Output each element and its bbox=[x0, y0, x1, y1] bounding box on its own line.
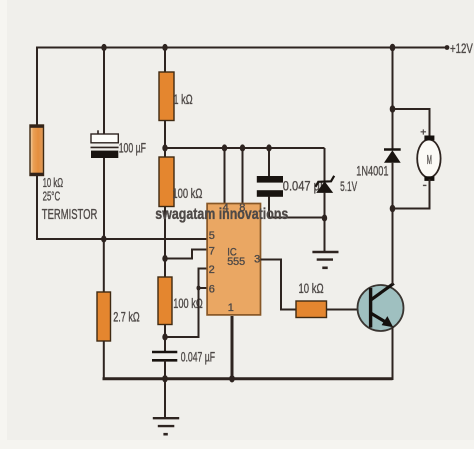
wire: pin 5 horizontal bbox=[36, 238, 207, 240]
svg-text:10 kΩ: 10 kΩ bbox=[299, 280, 324, 296]
wire: pin 6 stub bbox=[199, 287, 207, 289]
wire: C2 top lead bbox=[268, 148, 270, 177]
node junction R3 / C3 / pins 2,6 bbox=[162, 333, 167, 340]
svg-text:M: M bbox=[427, 152, 432, 167]
diode D1 1N4001 bbox=[384, 150, 401, 163]
node junction at 2.7k / 100uF bbox=[101, 235, 106, 242]
node junction ground rail / C3 bbox=[162, 375, 168, 382]
ground symbol (bottom) bbox=[153, 418, 179, 434]
svg-text:-: - bbox=[423, 177, 427, 192]
node junction D1 / motor top bbox=[390, 105, 396, 112]
capacitor C3 0.047uF bbox=[152, 352, 177, 360]
wire: pin 8 vertical bbox=[242, 148, 244, 204]
ground symbol (zener) bbox=[312, 252, 338, 268]
svg-text:0.047 µF: 0.047 µF bbox=[181, 348, 215, 364]
wire: R5 to base bbox=[327, 309, 359, 311]
wire: C2 to zener node bbox=[269, 217, 325, 219]
wire: bottom ground rail bbox=[103, 377, 393, 380]
wire: R2 top lead bbox=[164, 148, 166, 157]
wire: R1 bottom lead bbox=[164, 121, 166, 150]
wire: C2 bottom lead bbox=[268, 197, 270, 219]
wire: 100uF bottom lead bbox=[103, 158, 105, 239]
wire: zener top lead bbox=[324, 148, 326, 181]
node junction pin7 / R2-R3 bbox=[162, 255, 167, 262]
wire: 100uF top lead bbox=[103, 48, 105, 135]
wire: pin 4 vertical bbox=[224, 148, 226, 204]
wire: collector up bbox=[392, 209, 394, 285]
wire: pin 7 jog bbox=[165, 250, 207, 259]
zener diode D2 5.1V bbox=[316, 176, 335, 193]
bottom light band bbox=[0, 440, 474, 449]
transistor Q1 bbox=[358, 283, 404, 331]
svg-text:1: 1 bbox=[228, 302, 234, 314]
resistor R1 1 kΩ bbox=[159, 72, 174, 121]
wire: pin 2 jog bbox=[199, 269, 207, 289]
left light band bbox=[0, 0, 7, 449]
wire: junction to D1 cathode bbox=[392, 109, 394, 150]
node: +12V terminal dot bbox=[445, 45, 450, 50]
motor M1 bbox=[417, 136, 440, 181]
wire: zener bottom lead bbox=[324, 193, 326, 253]
svg-text:+: + bbox=[420, 126, 426, 138]
node junction mid rail / C2 bbox=[266, 144, 271, 151]
node junction pins 2,6 bbox=[197, 285, 201, 290]
node junction D1 / motor bottom bbox=[390, 205, 396, 212]
wire: +12V top rail bbox=[37, 47, 447, 49]
wire: R3 bottom lead bbox=[164, 325, 166, 353]
node junction mid rail / pin8 bbox=[240, 144, 245, 151]
node junction top rail / 100uF bbox=[101, 44, 106, 51]
svg-text:100 µF: 100 µF bbox=[119, 140, 146, 156]
wire: top rail to thermistor bbox=[36, 47, 38, 126]
wire: R1 top lead bbox=[164, 48, 166, 73]
wire: pins 2,6 down to R3/C3 node bbox=[165, 288, 199, 337]
svg-text:25°C: 25°C bbox=[43, 188, 61, 203]
svg-text:2.7 kΩ: 2.7 kΩ bbox=[113, 309, 140, 325]
node junction top rail / D1 branch bbox=[390, 44, 396, 51]
node junction ground rail / pin1 bbox=[229, 375, 235, 382]
wire: emitter down bbox=[392, 326, 394, 380]
svg-text:2: 2 bbox=[209, 264, 215, 276]
resistor R2 100 kΩ (upper) bbox=[159, 157, 174, 207]
svg-text:7: 7 bbox=[209, 246, 215, 258]
resistor R4 2.7 kΩ bbox=[97, 292, 111, 341]
wire: mid rail to pins 4,8 and zener bbox=[165, 147, 325, 149]
svg-text:6: 6 bbox=[209, 283, 215, 295]
wire: R2 to R3 bbox=[164, 207, 166, 278]
node junction mid rail / R1-R2 bbox=[162, 144, 167, 151]
wire: junction down to R4 2.7k bbox=[103, 239, 105, 292]
wire: thermistor bottom lead bbox=[36, 176, 38, 241]
capacitor C2 0.047uF bbox=[257, 176, 283, 197]
resistor R5 10 kΩ bbox=[296, 301, 327, 318]
wire: motor top branch bbox=[393, 109, 430, 137]
wire: R4 to ground rail bbox=[103, 341, 105, 380]
svg-text:5.1V: 5.1V bbox=[340, 178, 357, 194]
node junction top rail / R1 bbox=[162, 44, 167, 51]
wire: C3 bottom lead bbox=[164, 360, 166, 379]
wire: motor bottom branch bbox=[393, 179, 430, 209]
wire: top rail down to D1 bbox=[392, 48, 394, 110]
node junction mid rail / pin4 bbox=[222, 144, 227, 151]
svg-text:+12V: +12V bbox=[450, 40, 473, 56]
wire: pin 3 to R5 bbox=[261, 260, 297, 310]
capacitor C1 100uF polarity tick bbox=[97, 130, 99, 134]
svg-text:100 kΩ: 100 kΩ bbox=[172, 185, 202, 201]
wire: pin 1 to ground rail bbox=[231, 316, 234, 379]
svg-text:1 kΩ: 1 kΩ bbox=[173, 91, 192, 107]
thermistor TH1 body bbox=[30, 125, 44, 176]
wire: D1 anode down bbox=[392, 163, 394, 209]
resistor R3 100 kΩ (lower) bbox=[158, 277, 172, 325]
capacitor C1 100uF bbox=[91, 134, 119, 158]
svg-text:swagatam innovations: swagatam innovations bbox=[155, 206, 288, 223]
node junction zener / C2 / ground bbox=[322, 214, 327, 221]
svg-text:1N4001: 1N4001 bbox=[356, 162, 388, 178]
op-amp U1 IC 555 body bbox=[207, 204, 260, 315]
svg-text:TERMISTOR: TERMISTOR bbox=[42, 207, 98, 223]
wire: ground stem bbox=[164, 379, 166, 418]
svg-text:3: 3 bbox=[254, 254, 260, 266]
svg-text:555: 555 bbox=[227, 256, 245, 268]
svg-text:5: 5 bbox=[209, 230, 215, 242]
